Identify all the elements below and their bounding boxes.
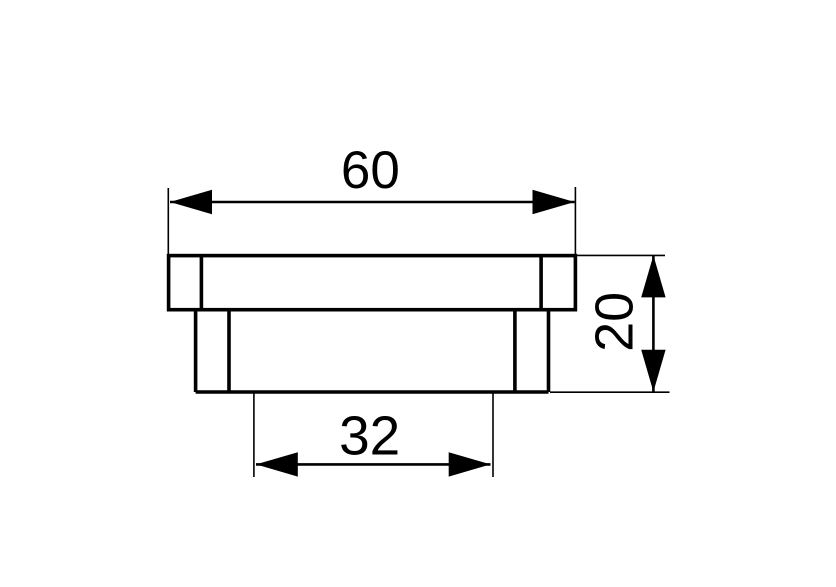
extension line bottom of dim 20: [550, 391, 670, 393]
dimension line 20: [652, 255, 655, 391]
dimension line 32: [256, 463, 491, 466]
extension line left of dim 60: [167, 188, 169, 256]
extension line left of dim 32: [253, 394, 255, 478]
dimension line 60: [170, 201, 575, 204]
arrowhead 60 left: [170, 190, 212, 214]
arrowhead 60 right: [533, 190, 575, 214]
extension line right of dim 60: [574, 187, 576, 256]
part outline: lower body tier: [196, 310, 549, 392]
arrowhead 20 bottom: [641, 350, 665, 392]
arrowhead 20 top: [641, 255, 665, 297]
arrowhead 32 left: [256, 452, 298, 476]
svg-text:32: 32: [339, 405, 400, 467]
part outline: top flange tier: [169, 256, 576, 310]
extension line right of dim 32: [492, 394, 494, 478]
arrowhead 32 right: [449, 452, 491, 476]
svg-text:20: 20: [584, 292, 644, 352]
svg-text:60: 60: [341, 141, 400, 200]
extension line top of dim 20: [577, 254, 665, 256]
